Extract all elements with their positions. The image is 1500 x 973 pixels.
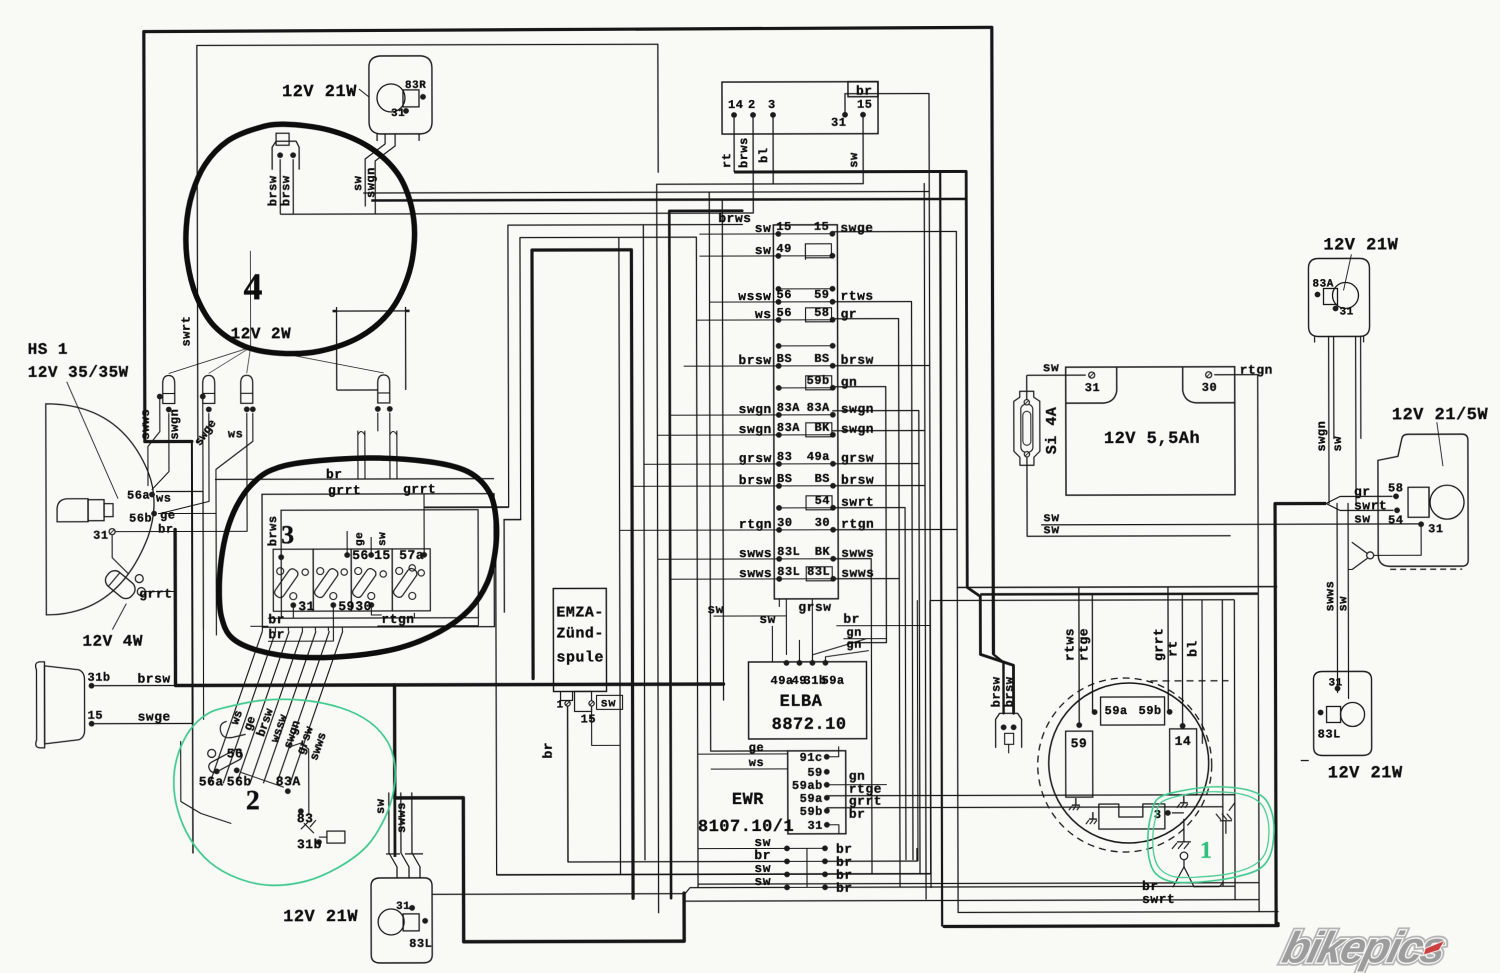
- wire row right br3: [825, 886, 1235, 887]
- svg-text:12V 21W: 12V 21W: [283, 908, 358, 927]
- svg-text:swge: swge: [138, 710, 171, 725]
- wire pilot3 down: [116, 413, 253, 531]
- svg-text:brsw: brsw: [989, 676, 1003, 707]
- connector strip S1 (ignition switch block): [738, 220, 874, 599]
- svg-text:brws: brws: [737, 137, 751, 168]
- wire EWR ge: [698, 741, 788, 755]
- svg-text:EWR: EWR: [732, 791, 764, 810]
- svg-text:59a: 59a: [1105, 704, 1128, 718]
- svg-text:56a: 56a: [127, 489, 150, 503]
- svg-text:49a: 49a: [807, 450, 830, 464]
- wire thick vertical x=670: [669, 211, 744, 898]
- svg-text:sw: sw: [754, 874, 771, 889]
- parking lamp 12V 4W: [82, 530, 175, 651]
- svg-text:ge: ge: [354, 532, 366, 546]
- svg-text:sw: sw: [601, 696, 617, 710]
- svg-text:swrt: swrt: [1142, 892, 1175, 907]
- wire right frame thick: [1275, 504, 1278, 924]
- wire EMZA br: [541, 706, 568, 862]
- svg-text:swws: swws: [841, 566, 874, 581]
- svg-text:BK: BK: [815, 545, 831, 559]
- wire vertical x=871: [833, 559, 872, 874]
- svg-text:grsw: grsw: [798, 600, 831, 615]
- svg-text:BS: BS: [814, 352, 829, 366]
- svg-text:sw: sw: [374, 798, 388, 814]
- svg-text:bikepics: bikepics: [1278, 923, 1451, 972]
- svg-text:12V 21W: 12V 21W: [1328, 764, 1403, 783]
- svg-text:sw: sw: [1043, 510, 1060, 525]
- wire gn to ELBA: [812, 626, 886, 662]
- svg-text:2: 2: [748, 98, 756, 112]
- svg-text:1: 1: [1200, 838, 1212, 864]
- wire magneto bus y=601: [930, 599, 1234, 602]
- svg-text:rtws: rtws: [840, 289, 873, 304]
- svg-text:swgn: swgn: [841, 422, 874, 437]
- wire 83R to bus: [364, 206, 366, 214]
- svg-text:swge: swge: [840, 221, 873, 236]
- wire vertical x=941: [940, 172, 942, 927]
- wire vertical x=899: [833, 319, 900, 887]
- wire outer frame right edge: [992, 27, 1004, 713]
- wire bottom bus y=874: [496, 506, 931, 875]
- annotation loop 4 (black): [186, 124, 415, 354]
- svg-text:56: 56: [776, 288, 791, 302]
- svg-text:br: br: [856, 84, 873, 99]
- wire bus y=184: [656, 183, 863, 186]
- bikepics watermark: [1278, 923, 1451, 972]
- svg-text:gr: gr: [1354, 484, 1371, 499]
- wire bl: [1185, 600, 1202, 744]
- svg-text:sw: sw: [847, 152, 861, 168]
- wire EMZA 15 sw: [592, 706, 621, 745]
- svg-text:31b: 31b: [297, 837, 322, 852]
- svg-text:59: 59: [1071, 736, 1088, 751]
- svg-text:31: 31: [831, 116, 846, 130]
- svg-text:30: 30: [355, 599, 372, 614]
- fuse Si 4A: [1014, 391, 1061, 465]
- svg-text:brsw: brsw: [841, 473, 874, 488]
- wire block top channel: [358, 431, 397, 479]
- svg-text:rt: rt: [1165, 640, 1180, 657]
- svg-text:sw: sw: [1331, 436, 1345, 452]
- headlight HS1 12V 35/35W: [28, 341, 155, 615]
- wire 83L channels: [374, 793, 423, 878]
- wire strip to ELBA sw: [707, 602, 786, 662]
- svg-text:15: 15: [581, 712, 596, 726]
- svg-text:83R: 83R: [405, 80, 426, 92]
- wire bottom bus y=913: [958, 911, 1278, 914]
- headlight pins: [93, 489, 176, 543]
- svg-text:57a: 57a: [399, 548, 424, 563]
- wire vertical x=957 swge: [832, 231, 958, 912]
- switch block lower wires: [250, 608, 478, 647]
- svg-text:15: 15: [374, 548, 391, 563]
- svg-text:83L: 83L: [777, 545, 800, 559]
- wire pin14 rt: [720, 118, 734, 172]
- svg-text:ELBA: ELBA: [780, 693, 823, 712]
- svg-text:swgn: swgn: [841, 402, 874, 417]
- wire horn swge: [95, 709, 193, 724]
- wire row1 sw: [698, 847, 787, 849]
- svg-text:15: 15: [857, 98, 872, 112]
- wire rtge: [1076, 594, 1094, 712]
- svg-text:56: 56: [227, 746, 244, 761]
- wire fuse sw down: [1027, 457, 1230, 538]
- bundle labels: [228, 706, 330, 763]
- svg-text:gn: gn: [846, 638, 861, 652]
- svg-text:31: 31: [396, 901, 410, 913]
- svg-text:EMZA-: EMZA-: [556, 604, 604, 621]
- svg-text:31: 31: [807, 819, 822, 833]
- horn: [36, 662, 111, 748]
- svg-text:BS: BS: [777, 472, 792, 486]
- svg-text:bl: bl: [757, 148, 771, 163]
- light switch assembly (region 2): [181, 721, 345, 852]
- svg-text:Zünd-: Zünd-: [556, 625, 604, 642]
- annotation loop 1 (green): [1148, 787, 1274, 883]
- svg-text:30: 30: [777, 516, 792, 530]
- tail light 12V 21/5W: [1354, 406, 1489, 569]
- wire pin2 brws: [737, 118, 753, 213]
- svg-text:HS 1: HS 1: [28, 341, 68, 359]
- svg-text:swws: swws: [139, 409, 153, 440]
- svg-text:59: 59: [338, 599, 355, 614]
- svg-text:83A: 83A: [276, 774, 301, 789]
- svg-text:sw: sw: [351, 175, 365, 191]
- svg-text:14: 14: [1175, 734, 1192, 749]
- svg-text:56: 56: [777, 306, 792, 320]
- connector EWR lower (sw/br rows): [754, 835, 852, 896]
- svg-text:49: 49: [776, 242, 791, 256]
- svg-text:15: 15: [814, 220, 829, 234]
- svg-text:8872.10: 8872.10: [772, 716, 847, 735]
- svg-text:Si 4A: Si 4A: [1044, 407, 1061, 455]
- svg-text:rtge: rtge: [1076, 628, 1091, 661]
- svg-text:12V 21W: 12V 21W: [282, 83, 357, 102]
- svg-text:ws: ws: [156, 492, 171, 506]
- wire horn brsw: [94, 672, 175, 687]
- svg-text:83L: 83L: [777, 565, 800, 579]
- svg-text:sw: sw: [377, 532, 389, 546]
- svg-text:15: 15: [776, 220, 791, 234]
- label brws bus: [718, 211, 751, 226]
- svg-text:31: 31: [1428, 522, 1443, 536]
- svg-text:31: 31: [93, 529, 108, 543]
- wire long vertical x=619: [619, 237, 621, 874]
- svg-text:12V 5,5Ah: 12V 5,5Ah: [1104, 430, 1200, 449]
- svg-text:83A: 83A: [807, 401, 830, 415]
- turn signal lamp rear-right 12V 21W (83L): [283, 878, 432, 963]
- bracket around pilot lamp 4: [333, 307, 410, 390]
- svg-text:sw: sw: [1043, 360, 1060, 375]
- wire bottom bus y=887: [698, 883, 1259, 884]
- wire strip to ELBA br: [836, 612, 930, 627]
- wire bus y=199.5 (thick): [371, 199, 966, 201]
- wire grrt to 57a: [423, 494, 425, 555]
- wire row3 sw: [497, 873, 787, 876]
- wire magneto bus y=588: [957, 586, 1277, 589]
- svg-text:8107.10/1: 8107.10/1: [698, 818, 794, 837]
- wire EWR gn out: [827, 784, 887, 786]
- svg-text:grrt: grrt: [1151, 628, 1166, 661]
- labels pilot wires: [139, 409, 244, 449]
- wires strip left stubs: [618, 234, 779, 579]
- wire long vertical x=657: [657, 184, 659, 913]
- wire inner frame top-left: [197, 44, 659, 441]
- svg-text:br: br: [268, 627, 285, 642]
- svg-text:br: br: [836, 881, 853, 896]
- svg-text:30: 30: [1202, 381, 1217, 395]
- wire vertical x=925: [832, 184, 926, 900]
- wire bundle to light switch: [209, 631, 343, 783]
- svg-text:br: br: [326, 467, 343, 482]
- wire fuse top: [1026, 375, 1028, 399]
- wire 83R channels: [351, 134, 395, 214]
- svg-text:31: 31: [391, 108, 405, 120]
- svg-text:83L: 83L: [1318, 727, 1341, 741]
- svg-text:12V 21W: 12V 21W: [1323, 236, 1398, 255]
- svg-text:brws: brws: [718, 211, 751, 226]
- wire sw long to 31: [1041, 509, 1421, 525]
- wire EWR br out: [827, 825, 839, 834]
- svg-text:83L: 83L: [409, 937, 432, 951]
- flasher relay ELBA 8872.10: [748, 640, 866, 757]
- wire 31 junction: [1348, 527, 1421, 569]
- svg-text:ws: ws: [749, 756, 764, 770]
- wire pin15 sw: [847, 118, 863, 184]
- svg-text:brsw: brsw: [1002, 676, 1016, 707]
- svg-text:brsw: brsw: [841, 353, 874, 368]
- svg-text:rtgn: rtgn: [841, 517, 874, 532]
- svg-text:swgn: swgn: [364, 167, 378, 198]
- svg-text:12V 35/35W: 12V 35/35W: [28, 364, 129, 382]
- svg-text:swws: swws: [395, 802, 409, 833]
- wire bottom bus y=893: [432, 893, 685, 896]
- svg-text:sw: sw: [707, 602, 724, 617]
- wire ws: [156, 490, 203, 492]
- svg-text:brsw: brsw: [279, 175, 293, 206]
- svg-text:54: 54: [1388, 513, 1403, 527]
- wire bus y=192: [363, 192, 929, 193]
- svg-text:swrt: swrt: [180, 316, 194, 347]
- svg-text:31b: 31b: [87, 671, 110, 685]
- svg-text:sw: sw: [759, 612, 776, 627]
- wire pilot4 channel: [378, 413, 390, 431]
- wire rtws: [1062, 587, 1082, 728]
- wire bus y=224.5: [508, 225, 743, 508]
- wire vertical x=1258 rtgn: [1215, 375, 1259, 912]
- svg-text:spule: spule: [556, 649, 604, 666]
- annotation loop 2 (green): [174, 699, 396, 886]
- svg-text:brsw: brsw: [266, 175, 280, 206]
- svg-text:grrt: grrt: [139, 587, 172, 602]
- svg-text:gr: gr: [841, 307, 858, 322]
- svg-text:br: br: [541, 742, 556, 759]
- svg-text:swrt: swrt: [841, 495, 874, 510]
- wire battery rtgn: [1240, 363, 1273, 378]
- spark plug / kill switch (region 1): [1142, 803, 1235, 907]
- wire pin31 br: [844, 94, 846, 115]
- wire pilot fan vertical: [179, 251, 250, 348]
- svg-text:swgn: swgn: [168, 409, 182, 440]
- wire outer frame top/left (thick border): [144, 27, 994, 853]
- svg-text:12V 21/5W: 12V 21/5W: [1392, 406, 1489, 425]
- wire bottom bus y=901: [685, 900, 1259, 902]
- wire thick racetrack around EMZA: [532, 250, 633, 899]
- wire grrt up: [174, 530, 176, 592]
- wire vertical x=1222 grrt: [826, 600, 1223, 887]
- svg-text:br: br: [843, 612, 860, 627]
- svg-text:49a: 49a: [770, 674, 793, 688]
- svg-text:rtgn: rtgn: [1240, 363, 1273, 378]
- wire rt: [1165, 594, 1185, 729]
- svg-text:br: br: [158, 523, 173, 537]
- wire long vertical x=644: [643, 225, 645, 860]
- wire thick to tail: [1275, 496, 1393, 510]
- svg-text:br: br: [268, 612, 285, 627]
- svg-text:56a: 56a: [199, 774, 224, 789]
- connector X1 (14 2 3 31 15): [722, 82, 878, 134]
- svg-text:swws: swws: [1323, 581, 1337, 612]
- wire x=916 br link: [916, 848, 918, 861]
- ignition coil EMZA Zündspule: [553, 588, 622, 726]
- svg-text:rt: rt: [720, 153, 734, 168]
- magneto/alternator: [1038, 678, 1229, 852]
- svg-text:1: 1: [557, 699, 564, 711]
- wire battery sw: [1027, 360, 1086, 375]
- svg-text:56: 56: [352, 548, 369, 563]
- wire EWR ws: [711, 756, 788, 770]
- wire switch feed y=519: [504, 520, 521, 613]
- svg-text:31: 31: [298, 599, 315, 614]
- wire vertical x=886 gn: [833, 387, 887, 643]
- svg-text:swws: swws: [841, 546, 874, 561]
- svg-text:83A: 83A: [777, 421, 800, 435]
- wire gn2 to ELBA: [825, 638, 868, 662]
- wire 83A channels: [1315, 336, 1361, 503]
- wire channels lower: [1323, 503, 1351, 698]
- svg-text:bl: bl: [1185, 640, 1200, 657]
- wire bus y=213 brws: [280, 213, 753, 214]
- svg-text:91c: 91c: [800, 751, 823, 765]
- label grsw below strip: [779, 599, 831, 662]
- svg-text:brws: brws: [266, 515, 280, 546]
- svg-text:ws: ws: [228, 427, 243, 441]
- svg-text:59a: 59a: [821, 674, 844, 688]
- annotation loop 3 (black): [219, 458, 497, 658]
- pilot lamps 12V 2W: [157, 325, 393, 413]
- turn signal lamp rear-left 12V 21W (83L-2): [1300, 671, 1403, 783]
- svg-text:3: 3: [281, 520, 294, 549]
- svg-text:grsw: grsw: [841, 451, 874, 466]
- wire vertical x=1234 rtge: [826, 600, 1235, 901]
- switch block (handlebar switches): [215, 467, 494, 628]
- svg-text:brsw: brsw: [137, 672, 170, 687]
- svg-text:12V 4W: 12V 4W: [82, 633, 143, 651]
- svg-text:sw: sw: [1354, 511, 1371, 526]
- wire long vertical x=697: [696, 237, 698, 887]
- wire main bus y=172 (thick): [734, 170, 966, 174]
- svg-text:2: 2: [246, 785, 260, 816]
- wire long vertical x=723: [722, 200, 723, 700]
- svg-text:59b: 59b: [800, 805, 823, 819]
- svg-text:BS: BS: [777, 352, 792, 366]
- svg-text:58: 58: [1388, 481, 1403, 495]
- svg-text:59: 59: [807, 766, 822, 780]
- wire swrt right: [1173, 883, 1223, 899]
- svg-text:83A: 83A: [777, 401, 800, 415]
- wire switch feed y=506: [424, 506, 509, 508]
- connector front-right signal (brsw brsw): [266, 133, 299, 214]
- wire row right br: [824, 601, 918, 862]
- turn signal lamp front-right 12V 21W (83R): [359, 56, 432, 141]
- svg-text:sw: sw: [1336, 596, 1350, 612]
- wire vertical x=912 rtws: [833, 302, 913, 860]
- svg-text:59: 59: [814, 288, 829, 302]
- svg-text:14: 14: [728, 98, 743, 112]
- svg-text:BS: BS: [815, 472, 830, 486]
- wire right thick vertical x=967: [966, 171, 1013, 713]
- svg-text:31: 31: [1085, 381, 1100, 395]
- svg-text:59ab: 59ab: [792, 779, 823, 793]
- svg-text:rtgn: rtgn: [381, 612, 414, 627]
- svg-text:12V 2W: 12V 2W: [231, 325, 292, 343]
- connector brsw mid-right: [989, 661, 1021, 753]
- wire pilot2 down: [160, 399, 210, 719]
- svg-text:83: 83: [777, 450, 792, 464]
- wire row4 sw: [685, 887, 787, 893]
- label 12V 21W top-left: [282, 83, 357, 102]
- svg-text:31: 31: [1329, 677, 1343, 689]
- wire ge: [158, 512, 216, 514]
- svg-text:4: 4: [243, 266, 262, 308]
- wire 31 to 4W lamp: [112, 535, 128, 574]
- wire row right br2: [824, 601, 930, 875]
- svg-text:gn: gn: [841, 375, 858, 390]
- wires strip right stubs: [833, 365, 958, 578]
- svg-text:rtws: rtws: [1062, 628, 1077, 661]
- svg-text:swgn: swgn: [1315, 421, 1329, 452]
- svg-text:15: 15: [88, 709, 103, 723]
- wire br headlight: [115, 530, 175, 532]
- svg-text:grrt: grrt: [403, 482, 436, 497]
- turn signal lamp front-left 12V 21W (83A): [1308, 236, 1398, 342]
- svg-text:ge: ge: [749, 741, 764, 755]
- svg-text:ge: ge: [160, 509, 175, 523]
- svg-text:br: br: [849, 807, 866, 822]
- svg-text:grrt: grrt: [328, 483, 361, 498]
- wire vertical x=919 swgn: [833, 411, 920, 874]
- wire bus y=237: [520, 237, 697, 519]
- wire pilot1 down: [148, 400, 169, 490]
- wire grrt magneto: [1151, 587, 1168, 711]
- wire magneto bus y=595 (thick): [980, 592, 1258, 595]
- wire thick ground bus left: [175, 528, 724, 942]
- wire bottom bus y=860: [825, 860, 917, 862]
- svg-text:3: 3: [768, 98, 776, 112]
- battery 12V 5,5Ah: [1066, 367, 1235, 495]
- wire vertical x=930 br: [845, 94, 931, 888]
- wire pin3 bl: [757, 118, 773, 184]
- wire bottom border thick y=927: [942, 171, 1278, 927]
- svg-text:59a: 59a: [800, 792, 823, 806]
- svg-text:56b: 56b: [129, 512, 152, 526]
- wire long vertical x=710: [709, 192, 787, 751]
- wire vertical x=905 swrt: [833, 508, 906, 860]
- wire bundle verticals: [203, 491, 342, 635]
- svg-text:59b: 59b: [1139, 704, 1162, 718]
- svg-text:83A: 83A: [1312, 278, 1333, 290]
